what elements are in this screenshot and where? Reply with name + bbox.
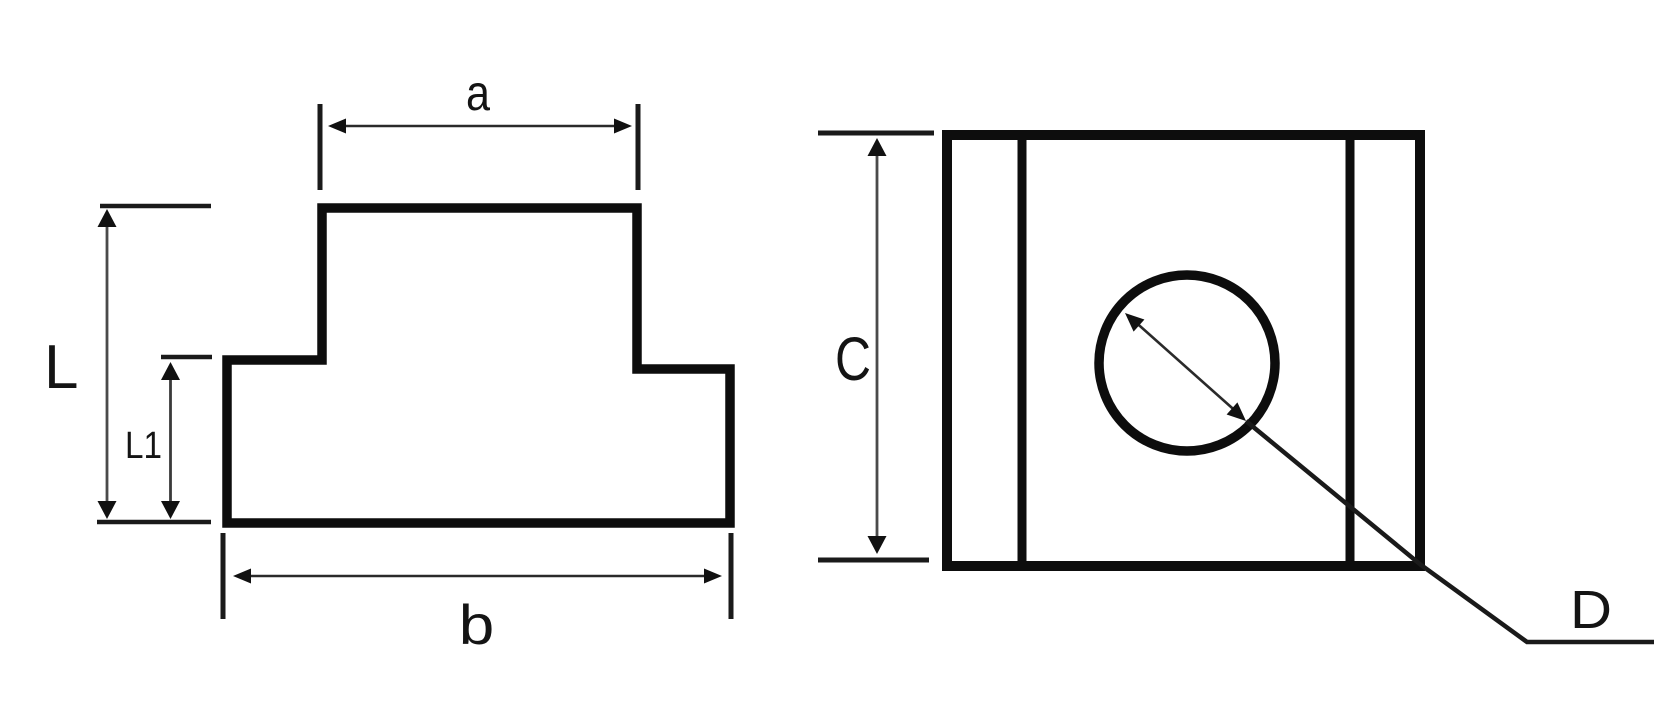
dimension C bottom arrowhead — [868, 536, 887, 554]
top view right slot line — [1346, 131, 1355, 570]
dimension b left extension line — [221, 533, 226, 619]
dimension a left arrowhead — [328, 119, 346, 134]
svg-text:L1: L1 — [125, 425, 162, 467]
dimension L1 arrow line — [169, 368, 172, 510]
dimension b left arrowhead — [233, 569, 251, 584]
svg-text:a: a — [466, 65, 490, 121]
dimension L1 bottom arrowhead — [161, 501, 180, 519]
dimension L top arrowhead — [98, 209, 117, 227]
svg-text:b: b — [459, 593, 495, 656]
dimension L1 top extension line — [161, 355, 212, 360]
dimension C bottom extension line — [818, 558, 929, 563]
hole diameter arrow line — [1132, 319, 1240, 415]
dimension L top extension line — [100, 204, 211, 209]
T-nut top view square outline — [947, 135, 1420, 566]
dimension C top extension line — [818, 131, 934, 136]
diameter lower-right arrowhead — [1227, 402, 1246, 421]
dimension b right arrowhead — [704, 569, 722, 584]
svg-text:L: L — [44, 333, 78, 402]
dimension C arrow line — [876, 146, 879, 546]
hole circle — [1099, 275, 1275, 451]
dimension L1 top arrowhead — [161, 362, 180, 380]
svg-text:D: D — [1570, 580, 1612, 640]
dimension C top arrowhead — [868, 138, 887, 156]
dimension b right extension line — [729, 533, 734, 619]
dimension a left extension line — [318, 104, 323, 190]
dimension L bottom extension line — [97, 520, 211, 525]
top view left slot line — [1018, 131, 1027, 570]
dimension a arrow line — [342, 125, 618, 128]
svg-text:C: C — [835, 325, 871, 393]
dimension L arrow line — [106, 216, 109, 510]
dimension a right arrowhead — [614, 119, 632, 134]
T-nut side profile outline — [227, 208, 730, 523]
dimension a right extension line — [636, 104, 641, 190]
dimension b arrow line — [246, 575, 709, 578]
dimension L bottom arrowhead — [98, 501, 117, 519]
leader line from hole to label D — [1246, 421, 1654, 642]
diameter upper-left arrowhead — [1125, 313, 1144, 332]
